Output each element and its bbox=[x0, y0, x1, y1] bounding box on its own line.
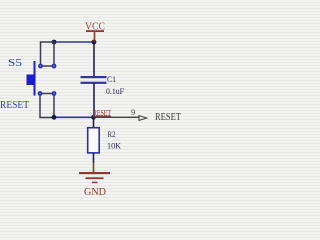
switch S5 bbox=[27, 42, 57, 118]
junction at switch S5 bottom pin bbox=[52, 115, 57, 120]
node VCC junction bbox=[92, 40, 97, 45]
node RESET junction bbox=[91, 115, 96, 120]
svg-text:S5: S5 bbox=[8, 58, 22, 69]
svg-text:C1: C1 bbox=[107, 74, 116, 84]
wire capacitor C1 to RESET node bbox=[93, 84, 95, 118]
wire resistor R2 to ground bbox=[93, 153, 95, 163]
svg-text:9: 9 bbox=[131, 107, 135, 117]
junction at switch S5 top pin bbox=[52, 40, 57, 45]
svg-text:10K: 10K bbox=[107, 141, 122, 151]
pin 9 wire bbox=[94, 116, 140, 118]
svg-text:RESET: RESET bbox=[0, 100, 29, 111]
ground symbol GND bbox=[79, 172, 110, 198]
resistor R2 bbox=[88, 128, 100, 153]
capacitor C1 bbox=[81, 76, 107, 84]
wire switch S5 bottom pin to RESET node bbox=[54, 116, 94, 118]
svg-text:RESET: RESET bbox=[155, 112, 181, 123]
svg-text:GND: GND bbox=[84, 187, 106, 198]
pin arrow bbox=[139, 116, 147, 121]
net label RESET (maroon) bbox=[93, 107, 112, 117]
wire RESET node to resistor R2 bbox=[93, 117, 95, 128]
svg-text:VCC: VCC bbox=[85, 21, 105, 32]
svg-text:0.1uF: 0.1uF bbox=[106, 86, 124, 96]
power symbol VCC bbox=[85, 21, 105, 42]
wire top: switch S5 top pin to VCC node bbox=[54, 41, 94, 43]
wire ground stem bbox=[93, 163, 95, 173]
svg-text:R2: R2 bbox=[108, 129, 116, 139]
wire VCC node to capacitor C1 bbox=[93, 42, 95, 77]
